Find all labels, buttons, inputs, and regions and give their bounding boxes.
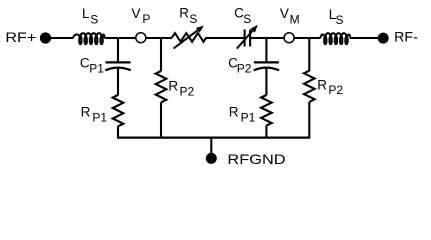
svg-text:R: R xyxy=(317,77,327,92)
resistor RP1 right xyxy=(261,95,272,126)
capacitor CP2 xyxy=(254,61,279,63)
svg-text:R: R xyxy=(81,105,91,120)
terminal RF+ xyxy=(40,32,51,43)
wire CP2 to RP1 right xyxy=(265,68,267,96)
svg-text:R: R xyxy=(168,79,178,94)
wire RP1 right to rail xyxy=(265,126,267,138)
svg-text:S: S xyxy=(336,13,344,27)
svg-text:P2: P2 xyxy=(180,84,195,98)
wire RF+ to LS1 xyxy=(46,37,74,39)
svg-text:P2: P2 xyxy=(237,62,252,76)
svg-text:S: S xyxy=(243,12,251,26)
wire RS to CS xyxy=(206,37,244,39)
wire LS2 to RF- xyxy=(350,37,383,39)
svg-text:V: V xyxy=(280,6,289,21)
wire VP to RS xyxy=(145,37,172,39)
inductor LS1 xyxy=(73,33,105,38)
svg-text:P: P xyxy=(142,12,150,26)
svg-text:RF-: RF- xyxy=(394,28,418,44)
terminal RF- xyxy=(378,33,389,44)
wire rail to RFGND xyxy=(210,138,212,154)
svg-text:V: V xyxy=(132,6,141,21)
resistor RS (variable) xyxy=(172,33,206,42)
terminal RFGND xyxy=(206,153,217,164)
svg-text:L: L xyxy=(82,6,90,21)
resistor RP2 left xyxy=(156,71,167,102)
wire VM to LS2 xyxy=(294,37,320,39)
svg-text:RFGND: RFGND xyxy=(227,151,285,167)
svg-text:S: S xyxy=(189,12,197,26)
wire LS1 to node VP xyxy=(104,37,136,39)
ground rail xyxy=(117,137,310,139)
inductor LS2 xyxy=(320,33,350,38)
node VP xyxy=(136,33,146,43)
svg-text:P1: P1 xyxy=(92,110,107,124)
node VM xyxy=(284,33,294,43)
wire branch RP2 left top xyxy=(160,38,162,71)
svg-text:P1: P1 xyxy=(241,110,256,124)
arrow CS xyxy=(237,28,255,49)
svg-text:P2: P2 xyxy=(328,83,343,97)
capacitor CS (variable) xyxy=(244,30,246,47)
arrow RS xyxy=(174,28,201,49)
svg-text:R: R xyxy=(179,5,189,20)
capacitor CP1 xyxy=(106,61,131,63)
svg-text:P1: P1 xyxy=(89,62,104,76)
wire CS to node VM xyxy=(250,37,284,39)
wire RP2 right to rail xyxy=(308,102,310,138)
wire branch RP2 right top xyxy=(308,38,310,71)
svg-text:R: R xyxy=(229,105,239,120)
svg-text:RF+: RF+ xyxy=(5,29,36,45)
resistor RP2 right xyxy=(304,71,315,102)
svg-text:M: M xyxy=(290,13,300,27)
wire RP2 left to rail xyxy=(160,102,162,137)
wire branch CP2 top xyxy=(265,38,267,62)
svg-text:S: S xyxy=(90,12,98,26)
wire RP1 left to rail xyxy=(117,126,119,137)
wire CP1 to RP1 left xyxy=(117,68,119,96)
wire branch CP1 top xyxy=(117,38,119,62)
resistor RP1 left xyxy=(113,95,124,126)
